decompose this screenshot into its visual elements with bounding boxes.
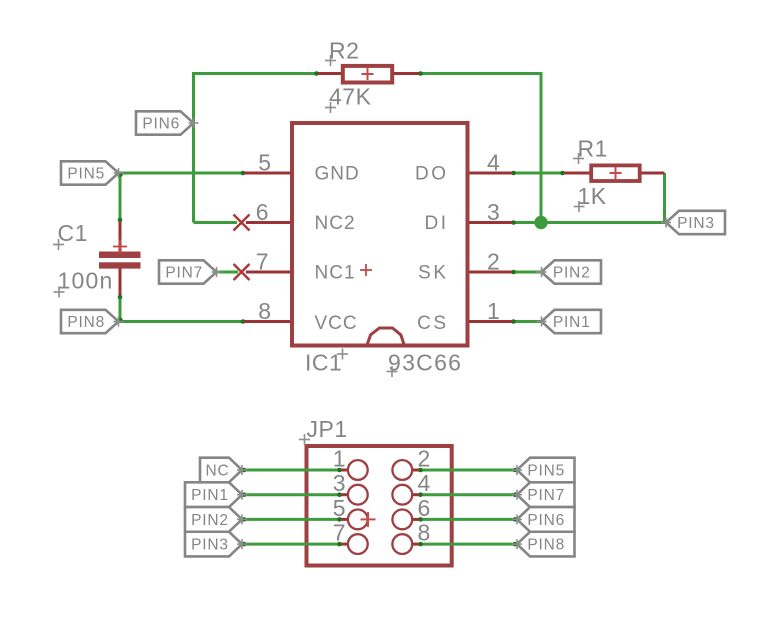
JP1 pin 8 circle xyxy=(392,534,412,554)
C1 label xyxy=(53,220,88,250)
JP1 pin 3 circle xyxy=(348,485,368,505)
svg-text:2: 2 xyxy=(487,249,500,275)
svg-text:PIN8: PIN8 xyxy=(527,537,565,554)
net flag PIN3 xyxy=(661,211,725,234)
svg-text:5: 5 xyxy=(258,150,271,176)
svg-text:5: 5 xyxy=(333,495,346,521)
resistor R1 body xyxy=(591,165,640,181)
wire net GND/R2 top horizontal right xyxy=(419,72,541,75)
JP1 pin 8 stub xyxy=(412,543,420,546)
svg-text:3: 3 xyxy=(487,199,500,225)
wire net GND/R2 top horizontal left xyxy=(194,72,319,75)
wire endpoint marks xyxy=(118,71,565,546)
IC1 pin 4 stub xyxy=(467,172,513,175)
JP1 pin 5 stub xyxy=(341,518,349,521)
pin number 7 xyxy=(256,249,269,275)
JP1 pin 4 circle xyxy=(392,485,412,505)
svg-text:R2: R2 xyxy=(329,38,359,64)
JP1 pin number 8 xyxy=(418,520,431,546)
JP1 pin number 3 xyxy=(333,470,346,496)
svg-text:1: 1 xyxy=(333,446,346,472)
svg-text:PIN6: PIN6 xyxy=(527,512,565,529)
junction dot node DI xyxy=(534,216,547,229)
IC1 pin 2 stub xyxy=(467,271,513,274)
JP1 pin 2 circle xyxy=(392,460,412,480)
svg-text:CS: CS xyxy=(417,313,448,334)
svg-text:2: 2 xyxy=(418,446,431,472)
svg-text:7: 7 xyxy=(256,249,269,275)
JP1 pin 6 stub xyxy=(412,518,420,521)
svg-text:PIN7: PIN7 xyxy=(527,487,565,504)
svg-text:DI: DI xyxy=(425,213,449,234)
wire PIN3 flag to JP1 pin 7 xyxy=(243,543,342,546)
wire PIN5 to IC pin 5 xyxy=(119,172,245,175)
wire R1 right down to DI net xyxy=(663,173,666,223)
resistor R2 leads xyxy=(318,72,419,75)
wire C1 bottom down to PIN8 row xyxy=(119,296,122,322)
wire IC pin 2 to PIN2 flag xyxy=(512,271,542,274)
pin name SK xyxy=(418,262,448,283)
resistor R2 body xyxy=(343,66,392,83)
JP1 pin number 1 xyxy=(333,446,346,472)
svg-text:VCC: VCC xyxy=(315,313,358,334)
pin name DI xyxy=(425,213,449,234)
R1 label xyxy=(573,136,608,164)
net flag PIN6 xyxy=(136,111,199,134)
svg-text:PIN5: PIN5 xyxy=(67,165,105,182)
net flag PIN5 (bottom right) xyxy=(512,458,575,483)
wire PIN7 to IC pin 7 xyxy=(217,271,239,274)
pin name VCC xyxy=(315,313,358,334)
pin number 1 xyxy=(487,298,500,324)
pin name NC1 xyxy=(315,262,356,283)
C1 value 100n xyxy=(54,268,114,298)
svg-text:PIN7: PIN7 xyxy=(165,264,203,281)
JP1 pin number 4 xyxy=(418,470,431,496)
R1 origin cross xyxy=(610,167,622,179)
net flag PIN7 xyxy=(159,260,222,283)
JP1 pin 3 stub xyxy=(341,493,349,496)
svg-text:JP1: JP1 xyxy=(307,416,348,442)
net flag NC (bottom left) xyxy=(200,458,247,483)
R2 origin cross xyxy=(362,68,374,80)
JP1 pin number 7 xyxy=(333,520,346,546)
pin name CS xyxy=(417,313,448,334)
wire JP1 pin 4 to PIN7 flag xyxy=(419,493,517,496)
pin number 2 xyxy=(487,249,500,275)
net flag PIN1 (bottom left) xyxy=(185,482,247,507)
svg-text:8: 8 xyxy=(258,298,271,324)
net flag PIN8 xyxy=(61,310,124,333)
wire JP1 pin 2 to PIN5 flag xyxy=(419,469,517,472)
svg-text:GND: GND xyxy=(315,163,360,184)
svg-text:7: 7 xyxy=(333,520,346,546)
svg-text:1: 1 xyxy=(487,298,500,324)
R2 label xyxy=(325,38,359,67)
pin number 5 xyxy=(258,150,271,176)
svg-text:NC: NC xyxy=(206,462,230,479)
JP1 pin 6 circle xyxy=(392,510,412,530)
IC1 bottom notch dome xyxy=(366,328,405,347)
wire horizontal into pin 6 xyxy=(194,221,238,224)
net flag PIN2 xyxy=(537,260,602,283)
wire vertical from R2 right down to DI junction xyxy=(540,72,543,223)
R1 value 1K xyxy=(574,183,607,212)
net flag PIN7 (bottom right) xyxy=(512,482,575,507)
svg-text:100n: 100n xyxy=(58,268,114,294)
svg-text:3: 3 xyxy=(333,470,346,496)
net flag PIN8 (bottom right) xyxy=(512,532,575,557)
IC1 pin 8 stub xyxy=(244,320,291,323)
net flag PIN2 (bottom left) xyxy=(185,507,247,532)
JP1 pin 5 circle xyxy=(348,510,368,530)
JP1 pin 7 stub xyxy=(341,543,349,546)
svg-text:93C66: 93C66 xyxy=(388,350,462,376)
wire PIN5 down to C1 top xyxy=(119,173,122,222)
net flag PIN5 xyxy=(61,161,124,184)
IC1 pin 7 stub xyxy=(246,271,291,274)
wire JP1 pin 6 to PIN6 flag xyxy=(419,518,517,521)
IC1 label xyxy=(305,349,348,376)
pin number 6 xyxy=(256,199,269,225)
JP1 label xyxy=(299,416,348,445)
svg-text:DO: DO xyxy=(415,163,449,184)
svg-text:PIN3: PIN3 xyxy=(191,537,229,554)
pin number 3 xyxy=(487,199,500,225)
wire vertical PIN6 net xyxy=(192,72,195,223)
IC1 pin 6 stub xyxy=(246,221,291,224)
svg-text:6: 6 xyxy=(418,495,431,521)
no-connect X on pin 7 xyxy=(234,264,250,280)
IC U1 (IC1 93C66) body xyxy=(292,123,468,346)
C1 origin cross xyxy=(113,240,127,254)
no-connect X on pin 6 xyxy=(234,215,250,231)
svg-text:PIN1: PIN1 xyxy=(191,487,229,504)
JP1 origin cross xyxy=(361,512,376,527)
net flag PIN6 (bottom right) xyxy=(512,507,575,532)
wire IC pin 4 to R1 left xyxy=(512,172,564,175)
svg-text:C1: C1 xyxy=(58,220,88,246)
IC1 origin cross xyxy=(360,264,372,276)
svg-text:PIN3: PIN3 xyxy=(677,215,715,232)
svg-text:4: 4 xyxy=(487,150,500,176)
capacitor C1 leads xyxy=(119,222,122,296)
svg-text:IC1: IC1 xyxy=(305,350,342,376)
svg-text:6: 6 xyxy=(256,199,269,225)
net flag PIN3 (bottom left) xyxy=(185,532,247,557)
IC1 value 93C66 xyxy=(387,350,463,378)
net flag PIN1 xyxy=(537,310,602,333)
wire PIN8 to IC pin 8 xyxy=(119,320,245,323)
JP1 pin 4 stub xyxy=(412,493,420,496)
svg-text:4: 4 xyxy=(418,470,431,496)
resistor R1 leads xyxy=(564,172,665,175)
pin name GND xyxy=(315,163,360,184)
svg-text:NC2: NC2 xyxy=(315,213,356,234)
wire NC flag to JP1 pin 1 xyxy=(243,469,342,472)
wire IC pin 1 to PIN1 flag xyxy=(512,320,542,323)
JP1 pin number 5 xyxy=(333,495,346,521)
wire JP1 pin 8 to PIN8 flag xyxy=(419,543,517,546)
pin name NC2 xyxy=(315,213,356,234)
svg-text:SK: SK xyxy=(418,262,448,283)
JP1 pin 2 stub xyxy=(412,469,420,472)
JP1 pin 1 circle xyxy=(348,460,368,480)
JP1 pin 1 stub xyxy=(341,469,349,472)
JP1 pin 7 circle xyxy=(348,534,368,554)
svg-text:PIN1: PIN1 xyxy=(553,314,591,331)
svg-text:NC1: NC1 xyxy=(315,262,356,283)
pin name DO xyxy=(415,163,449,184)
svg-text:PIN2: PIN2 xyxy=(553,264,591,281)
pin number 4 xyxy=(487,150,500,176)
pin number 8 xyxy=(258,298,271,324)
IC1 pin 1 stub xyxy=(467,320,513,323)
connector JP1 body xyxy=(307,446,452,566)
svg-text:PIN5: PIN5 xyxy=(527,462,565,479)
JP1 pin number 2 xyxy=(418,446,431,472)
capacitor C1 plates xyxy=(99,252,141,269)
IC1 pin 5 stub xyxy=(244,172,291,175)
JP1 pin number 6 xyxy=(418,495,431,521)
svg-text:PIN8: PIN8 xyxy=(67,314,105,331)
svg-text:1K: 1K xyxy=(578,183,607,209)
wire PIN2 flag to JP1 pin 5 xyxy=(243,518,342,521)
R2 value 47K xyxy=(325,83,372,113)
wire IC pin 3 to PIN3 flag xyxy=(512,221,666,224)
IC1 pin 3 stub xyxy=(467,221,513,224)
wire PIN1 flag to JP1 pin 3 xyxy=(243,493,342,496)
svg-text:PIN2: PIN2 xyxy=(191,512,229,529)
svg-text:8: 8 xyxy=(418,520,431,546)
svg-text:47K: 47K xyxy=(329,83,372,109)
svg-text:PIN6: PIN6 xyxy=(142,115,180,132)
